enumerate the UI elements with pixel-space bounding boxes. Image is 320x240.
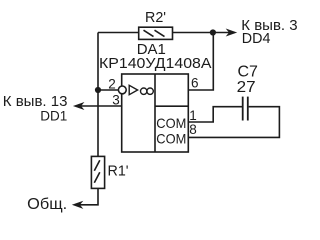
op-amp inversion circle on pin 2: [118, 86, 126, 94]
wire: pin 1 to C7 left: [188, 107, 242, 122]
svg-text:DD1: DD1: [40, 108, 67, 123]
junction: output node: [210, 29, 216, 35]
svg-text:8: 8: [189, 122, 197, 137]
svg-text:Общ.: Общ.: [27, 196, 67, 213]
svg-text:1: 1: [189, 108, 197, 123]
capacitor C7 plates: [243, 97, 248, 121]
svg-text:COM: COM: [156, 115, 186, 131]
wire: left vertical from top wire down to R1': [97, 33, 99, 157]
resistor R2': [139, 27, 173, 39]
svg-text:R2': R2': [145, 10, 166, 26]
svg-text:КР140УД1408А: КР140УД1408А: [99, 55, 212, 72]
arrowhead: to К выв. 3 (points right): [227, 29, 237, 36]
svg-text:DD4: DD4: [242, 31, 271, 47]
arrowhead: to Общ. (points left): [73, 201, 83, 208]
svg-text:27: 27: [237, 79, 256, 96]
svg-text:6: 6: [191, 76, 199, 91]
wire: pin 2 from inverting node to circle: [98, 89, 118, 91]
resistor R1': [91, 156, 104, 188]
wire: output node down to pin 6: [188, 33, 213, 91]
wire: pin 3 input line: [77, 105, 122, 107]
junction: inverting input node: [95, 87, 101, 93]
wire top net: pin2 node to R2' left: [98, 32, 139, 34]
arrowhead: to К выв. 13 (points left): [74, 103, 84, 110]
op-amp U1 DA1 box: [122, 74, 189, 152]
wire: C7 right around to pin 8: [188, 107, 279, 138]
wire: R2' right to output arrow: [173, 32, 232, 34]
svg-text:3: 3: [112, 92, 120, 107]
op-amp infinity symbol: [141, 88, 154, 94]
wire: R1' bottom to ground arrow: [77, 188, 99, 204]
svg-text:R1': R1': [108, 164, 129, 180]
svg-text:2: 2: [108, 76, 116, 91]
svg-text:COM: COM: [156, 130, 186, 146]
op-amp triangle symbol: [129, 85, 137, 94]
